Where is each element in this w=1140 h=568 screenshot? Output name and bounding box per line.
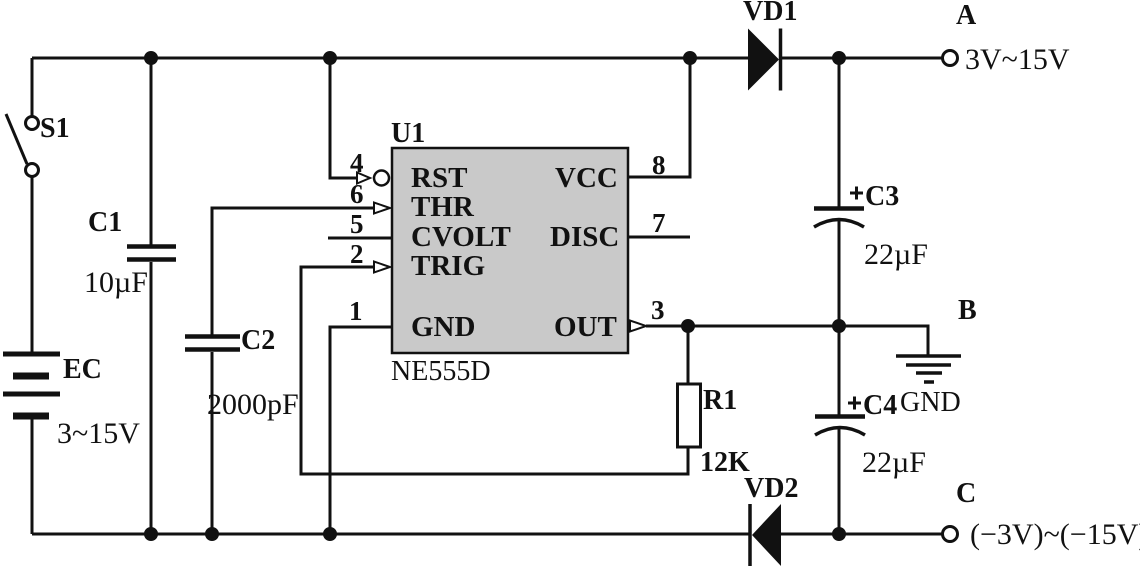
- wire CVOLT stub (pin 5): [328, 237, 392, 240]
- wire OUT to R1: [687, 326, 690, 384]
- junction OUT C4: [834, 321, 845, 332]
- wire top rail: [32, 57, 748, 60]
- junction pin4 top rail: [325, 53, 336, 64]
- svg-text:U1: U1: [391, 118, 425, 149]
- wire OUT row to C4: [838, 326, 841, 415]
- svg-text:B: B: [958, 295, 977, 326]
- svg-text:C4: C4: [863, 390, 897, 421]
- svg-text:OUT: OUT: [554, 311, 617, 343]
- svg-text:VD1: VD1: [743, 0, 797, 27]
- op-amp U1 NE555D IC body: [392, 148, 628, 353]
- junction OUT R1: [683, 321, 694, 332]
- junction pin1 bottom rail: [325, 529, 336, 540]
- wire C4 to bottom rail: [838, 428, 841, 534]
- wire battery to bottom rail: [31, 419, 34, 534]
- svg-text:C2: C2: [241, 325, 275, 356]
- svg-text:22µF: 22µF: [862, 446, 926, 479]
- svg-text:NE555D: NE555D: [391, 356, 491, 387]
- wire DISC stub (pin 7): [628, 236, 690, 239]
- svg-text:GND: GND: [411, 311, 475, 343]
- svg-text:3~15V: 3~15V: [57, 417, 140, 450]
- wire OUT to node B: [646, 326, 928, 356]
- svg-text:A: A: [956, 0, 977, 31]
- diode VD2: [750, 504, 781, 566]
- svg-text:TRIG: TRIG: [411, 250, 485, 282]
- wire bottom rail: [32, 533, 750, 536]
- junction C3 top rail: [834, 53, 845, 64]
- svg-text:6: 6: [350, 179, 364, 209]
- terminal A: [943, 51, 958, 66]
- wire C3 to OUT row: [838, 220, 841, 326]
- svg-text:GND: GND: [900, 387, 961, 418]
- terminal C: [943, 527, 958, 542]
- wire pin 4 branch: [330, 58, 357, 178]
- svg-text:CVOLT: CVOLT: [411, 221, 511, 253]
- svg-text:1: 1: [349, 296, 363, 326]
- svg-text:3: 3: [651, 295, 665, 325]
- svg-text:VCC: VCC: [555, 162, 618, 194]
- svg-text:2: 2: [350, 239, 364, 269]
- wire left branch to S1: [31, 58, 34, 116]
- svg-text:EC: EC: [63, 354, 102, 385]
- svg-text:VD2: VD2: [744, 473, 798, 504]
- junction pin8 top rail: [685, 53, 696, 64]
- wire C3 column top: [838, 58, 841, 207]
- diode VD1: [748, 29, 781, 91]
- svg-text:5: 5: [350, 209, 364, 239]
- capacitor C3: [814, 187, 864, 228]
- wire C2 to bottom rail: [211, 352, 214, 534]
- switch S1: [6, 114, 39, 177]
- wire bottom rail right of VD2: [781, 533, 942, 536]
- pin 4 inversion bubble: [374, 171, 389, 186]
- wire top rail right of VD1: [781, 57, 942, 60]
- pin 2 arrow: [374, 262, 390, 273]
- svg-text:R1: R1: [703, 385, 737, 416]
- resistor R1: [678, 384, 701, 447]
- svg-text:7: 7: [652, 208, 666, 238]
- capacitor C1: [127, 247, 176, 260]
- svg-text:(−3V)~(−15V): (−3V)~(−15V): [970, 518, 1140, 551]
- svg-text:S1: S1: [40, 113, 70, 144]
- svg-text:C: C: [956, 478, 976, 509]
- pin 4 arrow: [357, 173, 370, 184]
- svg-text:2000pF: 2000pF: [207, 388, 299, 421]
- junction C1 bottom: [146, 529, 157, 540]
- svg-text:10µF: 10µF: [84, 266, 148, 299]
- svg-text:DISC: DISC: [550, 221, 619, 253]
- svg-text:8: 8: [652, 150, 666, 180]
- pin 6 arrow: [374, 203, 390, 214]
- svg-text:22µF: 22µF: [864, 238, 928, 271]
- ground: [896, 356, 961, 382]
- svg-text:THR: THR: [411, 191, 475, 223]
- wire GND branch (pin 1): [330, 327, 392, 534]
- pin 3 OUT arrow: [630, 321, 646, 332]
- wire THR horizontal (pin 6): [212, 208, 374, 336]
- wire TRIG branch (pin 2): [301, 267, 688, 474]
- wire C1 branch bottom: [150, 262, 153, 534]
- svg-text:12K: 12K: [700, 447, 750, 478]
- svg-text:C1: C1: [88, 207, 122, 238]
- svg-text:RST: RST: [411, 162, 467, 194]
- junction C2 bottom: [207, 529, 218, 540]
- capacitor C2: [185, 337, 240, 350]
- wire VCC branch (pin 8): [628, 58, 690, 177]
- battery EC: [3, 354, 60, 416]
- svg-text:4: 4: [350, 148, 364, 178]
- junction C4 bottom rail: [834, 529, 845, 540]
- svg-text:C3: C3: [865, 181, 899, 212]
- wire S1 to battery: [31, 177, 34, 352]
- capacitor C4: [815, 397, 865, 436]
- wire C1 branch top: [150, 58, 153, 246]
- junction C1 top: [146, 53, 157, 64]
- svg-text:3V~15V: 3V~15V: [965, 43, 1070, 76]
